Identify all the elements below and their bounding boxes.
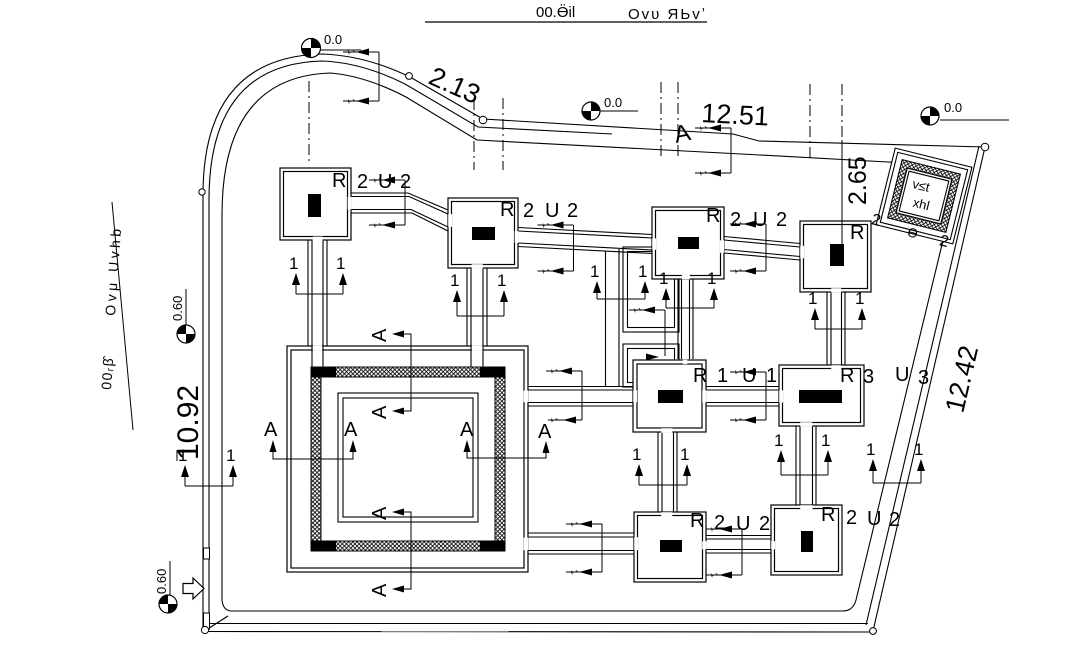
svg-text:0.60: 0.60 xyxy=(154,569,169,594)
svg-text:Ovυ ЯЬvʼ: Ovυ ЯЬvʼ xyxy=(628,6,707,23)
svg-text:2: 2 xyxy=(759,513,770,535)
svg-text:2: 2 xyxy=(523,200,534,222)
leader corridor7 xyxy=(566,521,602,576)
corridor room1-room2 xyxy=(351,193,448,210)
boundary top line A with jog xyxy=(483,119,985,147)
svg-text:2: 2 xyxy=(889,509,900,531)
svg-text:2: 2 xyxy=(846,507,857,529)
svg-text:R: R xyxy=(840,365,854,387)
svg-text:R: R xyxy=(706,205,720,227)
leader room1 label xyxy=(369,177,405,229)
leader room5 label xyxy=(730,369,766,424)
svg-text:1: 1 xyxy=(289,254,298,273)
corridor room5-room6 horizontal xyxy=(706,386,779,388)
boundary right slant outer xyxy=(873,147,985,631)
2.65 witness line xyxy=(841,140,843,254)
leader 12.51 dim xyxy=(695,125,731,177)
10.92 witness tick xyxy=(176,450,178,461)
leader room2 label xyxy=(538,222,574,275)
section A markers left/right xyxy=(264,419,552,443)
svg-text:1: 1 xyxy=(590,262,599,281)
svg-text:3: 3 xyxy=(863,366,874,388)
svg-text:1: 1 xyxy=(914,440,923,459)
level pair room3-left xyxy=(590,262,649,299)
level pair room4 xyxy=(808,289,866,329)
svg-text:2: 2 xyxy=(567,200,578,222)
corner blocks xyxy=(311,367,505,551)
svg-text:R: R xyxy=(332,170,346,192)
svg-text:12.51: 12.51 xyxy=(701,98,770,131)
room 5 xyxy=(633,360,706,432)
svg-text:1: 1 xyxy=(774,431,783,450)
svg-text:U: U xyxy=(742,365,756,387)
svg-text:1: 1 xyxy=(226,446,235,465)
leader room7 label xyxy=(706,526,742,579)
corridor loop2 xyxy=(623,344,679,387)
dash-dot centerlines xyxy=(309,81,842,170)
boundary top inner line C xyxy=(477,140,961,166)
svg-text:1: 1 xyxy=(450,271,459,290)
room 7 xyxy=(634,512,706,582)
svg-text:1: 1 xyxy=(632,445,641,464)
corridor structure-room7 horizontal xyxy=(528,532,634,534)
room 3 xyxy=(652,207,724,279)
survey point circles xyxy=(199,73,989,635)
corridor room3-room4 sloped xyxy=(724,237,800,244)
level pair room7-top xyxy=(632,445,691,485)
boundary bottom inner line xyxy=(222,600,843,611)
corridor channels continuing into structure xyxy=(312,344,483,367)
black door bars xyxy=(308,194,844,552)
svg-text:A: A xyxy=(369,583,391,597)
marker 0.60 left lower xyxy=(159,595,177,613)
svg-text:3: 3 xyxy=(918,367,929,389)
boundary outer line 1 (left + top curve + 2.13 slope) xyxy=(203,54,483,629)
rotated-A section markers vertical chain xyxy=(369,328,391,597)
leader loop area xyxy=(629,307,665,361)
svg-text:0.0: 0.0 xyxy=(944,100,962,115)
leader 0.0 bench xyxy=(343,49,379,105)
boundary bottom outer pair xyxy=(205,623,868,625)
svg-text:A: A xyxy=(538,421,552,443)
svg-text:1: 1 xyxy=(497,271,506,290)
svg-text:1: 1 xyxy=(638,262,647,281)
room 6 xyxy=(779,365,864,426)
svg-text:R: R xyxy=(850,222,864,244)
svg-text:1: 1 xyxy=(717,365,728,387)
svg-text:U: U xyxy=(867,508,881,530)
room 2 xyxy=(448,198,518,268)
svg-text:1: 1 xyxy=(336,254,345,273)
svg-text:1: 1 xyxy=(766,365,777,387)
corridor structure-room5 horizontal xyxy=(528,386,633,388)
corridor room5-room7 xyxy=(657,432,659,512)
corridor room1 down xyxy=(307,240,309,346)
corridor room7-room8 horizontal xyxy=(706,535,771,537)
boundary right slant inner xyxy=(843,166,961,611)
svg-text:1: 1 xyxy=(707,269,716,288)
marker 0.0 top-right xyxy=(921,107,939,125)
svg-text:1: 1 xyxy=(680,445,689,464)
boundary outer line 2 (parallel inside) xyxy=(209,61,612,624)
svg-text:U: U xyxy=(753,209,767,231)
corridor room2 down xyxy=(466,268,468,346)
svg-text:A: A xyxy=(369,405,391,419)
svg-text:R: R xyxy=(693,365,707,387)
svg-text:U: U xyxy=(895,364,909,386)
outer square double xyxy=(287,346,528,572)
leader room3 label xyxy=(730,221,766,275)
marker 0.60 left upper xyxy=(177,325,195,343)
level pair room2 xyxy=(450,271,508,316)
svg-text:2.65: 2.65 xyxy=(844,156,872,205)
room 8 xyxy=(771,505,842,575)
svg-text:1: 1 xyxy=(866,440,875,459)
corridor room4-room6 xyxy=(826,292,828,365)
level pair left-margin xyxy=(178,446,237,486)
svg-text:0.0: 0.0 xyxy=(604,95,622,110)
svg-text:1: 1 xyxy=(808,289,817,308)
svg-text:R: R xyxy=(821,504,835,526)
svg-text:00ᵣβ̂: 00ᵣβ̂ xyxy=(98,355,116,391)
level pair boundary-right xyxy=(866,440,925,483)
vertical connector corridor x600 xyxy=(605,251,607,386)
level pair room1 xyxy=(289,254,347,294)
corridor door gaps xyxy=(313,197,842,550)
leader corridor5 xyxy=(546,368,582,424)
svg-text:A: A xyxy=(344,419,358,441)
svg-text:10.92: 10.92 xyxy=(172,385,205,460)
svg-text:A: A xyxy=(264,419,278,441)
svg-text:A: A xyxy=(369,506,391,520)
svg-text:1: 1 xyxy=(659,269,668,288)
corridor loop1 xyxy=(623,247,679,332)
boundary inner site line (left curve) xyxy=(222,73,477,600)
svg-text:2: 2 xyxy=(357,171,368,193)
room 4 xyxy=(800,221,871,292)
svg-text:R: R xyxy=(500,199,514,221)
room 1 xyxy=(280,168,351,240)
svg-text:1: 1 xyxy=(821,431,830,450)
svg-text:U: U xyxy=(736,513,750,535)
svg-text:0.60: 0.60 xyxy=(170,296,185,321)
svg-text:0.0: 0.0 xyxy=(324,32,342,47)
level pair room8-top xyxy=(774,431,832,475)
svg-text:2: 2 xyxy=(400,171,411,193)
hollow arrow symbol xyxy=(183,578,204,599)
hatched wall band xyxy=(311,367,505,551)
svg-text:R: R xyxy=(690,510,704,532)
svg-text:00.Ɵ̈il: 00.Ɵ̈il xyxy=(536,4,575,21)
svg-text:2: 2 xyxy=(730,209,741,231)
corridor room3 down to room5 xyxy=(677,279,679,359)
boundary right slant second xyxy=(866,146,979,625)
marker 0.0 top-left xyxy=(302,39,321,58)
marker 0.0 top-middle xyxy=(582,102,600,120)
svg-text:A: A xyxy=(460,419,474,441)
svg-text:1: 1 xyxy=(855,289,864,308)
svg-text:A: A xyxy=(369,328,391,342)
svg-text:U: U xyxy=(545,200,559,222)
inner square double xyxy=(338,393,478,522)
svg-text:2: 2 xyxy=(776,209,787,231)
corridor room6-room8 xyxy=(795,426,797,505)
corridor room2-room3 sloped xyxy=(518,228,652,235)
level pair room3-right xyxy=(659,269,718,308)
corner tick bottom-left xyxy=(206,616,228,630)
